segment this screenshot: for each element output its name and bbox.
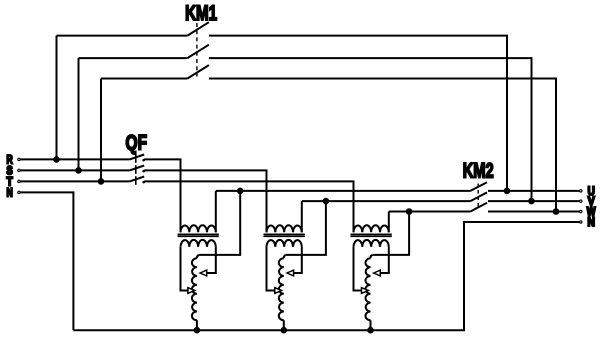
wire R input line <box>20 158 129 160</box>
wire T2 secondary winding left end to wiper 2 <box>267 247 275 291</box>
variac L2 wiper arrow 2 <box>275 288 282 294</box>
wire T1 secondary winding right end to wiper 1 <box>207 247 216 273</box>
KM1 pole 3 blade <box>187 65 209 78</box>
transformer T1 core <box>178 234 219 236</box>
terminal N (output) <box>580 217 595 229</box>
svg-text:N: N <box>7 188 13 200</box>
variac L2 coil <box>284 255 286 258</box>
KM1 pole 3 left wire <box>101 78 187 80</box>
QF pole 3 fixed contact dot <box>142 181 145 184</box>
svg-text:QF: QF <box>126 132 148 155</box>
node T tap junction <box>98 178 105 185</box>
QF pole 2 cross tick <box>135 165 137 174</box>
terminal N (input) <box>7 188 21 200</box>
transformer T2 secondary winding <box>267 240 302 247</box>
variac L1 wiper arrow 2 <box>188 288 195 294</box>
wire T2 secondary right end up to output line V <box>301 201 303 232</box>
wire output junction down to variac L3 top <box>373 212 410 255</box>
KM1 pole 1 left wire <box>57 35 188 37</box>
wire variac L2 bottom to neutral bus <box>283 320 285 330</box>
wire T1 secondary right end up to output line U <box>215 191 217 232</box>
wire T3 secondary winding left end to wiper 2 <box>354 247 362 291</box>
wire T input line <box>20 180 129 182</box>
node R tap junction <box>53 156 60 163</box>
wire variac L1 bottom to neutral bus <box>196 320 198 330</box>
node S tap junction <box>75 167 82 174</box>
wire neutral bus to N output terminal <box>73 222 579 330</box>
node output line W to variac junction <box>406 208 413 215</box>
transformer T3 secondary winding <box>354 240 389 247</box>
transformer T2 primary winding <box>267 225 302 232</box>
wire QF pole 3 to transformer T3 primary (phase T) <box>144 181 353 232</box>
wire output line U from T1 to KM2 <box>216 190 471 192</box>
QF pole 3 blade <box>130 177 145 182</box>
wire S input line <box>20 169 129 171</box>
terminal V (output) <box>580 196 595 208</box>
variac L3 coil <box>370 255 372 258</box>
variac L1 coil <box>197 255 199 258</box>
wire QF pole 1 to transformer T1 primary (phase R) <box>144 159 180 232</box>
wire QF pole 2 to transformer T2 primary (phase S) <box>144 170 266 232</box>
QF pole 2 blade <box>130 166 145 171</box>
QF pole 1 fixed contact dot <box>142 159 145 162</box>
KM2 pole 3 blade <box>470 203 487 212</box>
KM1 pole 2 left wire <box>79 57 188 59</box>
terminal W (output) <box>580 207 596 219</box>
wire output line W from T3 to KM2 <box>389 211 471 213</box>
wire T3 secondary winding right end to wiper 1 <box>380 247 389 273</box>
KM2 pole 3 right wire <box>488 211 579 213</box>
transformer T1 secondary winding <box>181 240 216 247</box>
node variac L1 on neutral bus <box>194 327 201 334</box>
terminal U (output) <box>580 186 595 198</box>
variac L2 wiper arrow 1 <box>287 270 294 276</box>
svg-text:N: N <box>588 217 595 229</box>
QF pole 3 cross tick <box>135 176 137 185</box>
node output line U to variac junction <box>237 188 244 195</box>
wire T2 secondary winding right end to wiper 1 <box>293 247 301 273</box>
node KM1 bypass junction on line V <box>528 198 535 205</box>
node KM1 bypass junction on line U <box>504 188 511 195</box>
wire S riser to KM1 pole 2 <box>78 58 80 170</box>
variac L3 wiper arrow 2 <box>362 288 369 294</box>
wire T riser to KM1 pole 3 <box>100 79 102 182</box>
wire output junction down to variac L1 top <box>199 191 240 255</box>
variac L1 wiper arrow 1 <box>200 270 207 276</box>
transformer T2 core <box>264 234 305 236</box>
KM2 mechanical linkage (dashed) <box>477 184 479 210</box>
KM2 pole 1 blade <box>470 182 487 191</box>
svg-text:KM2: KM2 <box>463 160 494 183</box>
transformer T3 primary winding <box>354 225 389 232</box>
KM1 pole 1 right wire with drop to output line <box>209 36 507 191</box>
terminal S (input) <box>7 166 21 178</box>
QF pole 2 fixed contact dot <box>142 170 145 173</box>
wire T1 secondary winding left end to wiper 2 <box>181 247 189 291</box>
terminal T (input) <box>7 177 21 189</box>
KM1 mechanical linkage (dashed) <box>196 23 198 77</box>
svg-text:KM1: KM1 <box>185 2 217 25</box>
terminal R (input) <box>7 155 21 167</box>
wire variac L3 bottom to neutral bus <box>370 320 372 330</box>
KM1 pole 2 blade <box>187 45 209 58</box>
node variac L3 on neutral bus <box>367 327 374 334</box>
wire R riser to KM1 pole 1 <box>56 36 58 160</box>
node output line V to variac junction <box>323 198 330 205</box>
KM2 pole 1 right wire <box>488 190 579 192</box>
KM2 pole 2 blade <box>470 192 487 201</box>
QF pole 1 blade <box>130 155 145 160</box>
QF pole 1 cross tick <box>135 154 137 163</box>
KM1 pole 2 right wire with drop to output line <box>209 58 532 201</box>
KM1 pole 1 blade <box>187 22 209 35</box>
KM1 pole 3 right wire with drop to output line <box>209 79 556 212</box>
wire output junction down to variac L2 top <box>286 201 326 255</box>
transformer T1 primary winding <box>181 225 216 232</box>
KM2 pole 2 right wire <box>488 200 579 202</box>
wire T3 secondary right end up to output line W <box>388 212 390 233</box>
wire N input line to bottom bus <box>20 192 73 330</box>
node KM1 bypass junction on line W <box>553 208 560 215</box>
variac L3 wiper arrow 1 <box>374 270 381 276</box>
node variac L2 on neutral bus <box>281 327 288 334</box>
transformer T3 core <box>351 234 392 236</box>
wire output line V from T2 to KM2 <box>302 200 471 202</box>
